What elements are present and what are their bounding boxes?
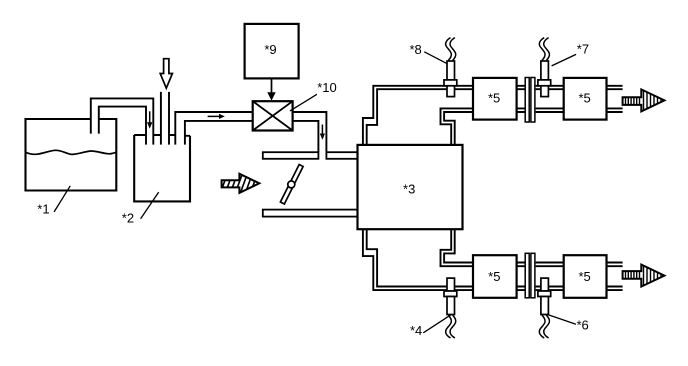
muffler *5 #2 — [564, 78, 607, 120]
sensor *6 tip — [541, 278, 549, 291]
wire squiggle *4 — [446, 315, 452, 338]
sensor *8 body — [447, 61, 455, 80]
sensor *6 body — [541, 297, 549, 315]
exhaust pipe *3 bottom-left outer wall — [363, 229, 473, 290]
svg-text:*2: *2 — [122, 211, 134, 226]
intake duct upper wall left segment — [263, 152, 319, 159]
intake duct upper wall right segment — [326, 152, 357, 159]
engine box *3 — [358, 145, 463, 229]
intake duct lower wall — [263, 210, 358, 217]
wire squiggle *7 — [539, 38, 545, 61]
svg-text:*3: *3 — [403, 181, 415, 196]
hollow arrow (air in) — [160, 59, 172, 88]
sensor *7 tip — [541, 86, 549, 97]
exhaust striped arrow bottom — [623, 265, 665, 287]
svg-text:*5: *5 — [488, 91, 500, 106]
fresh air inlet pipe — [161, 92, 169, 145]
pipe tank *1 to *2 inner wall — [99, 107, 146, 145]
sensor *8 flange — [444, 80, 457, 86]
control arrow *9 to *10 — [271, 78, 273, 93]
leader line *2 — [141, 192, 159, 219]
leader line *10 — [290, 94, 317, 111]
liquid level wavy line — [26, 150, 116, 154]
container *2 top edge segments — [134, 134, 190, 137]
leader line *7 — [552, 54, 576, 66]
exhaust pipe *3 bottom-right outer wall — [441, 229, 474, 266]
leader line *8 — [424, 52, 447, 64]
leader line *1 — [54, 186, 70, 212]
exhaust flange bars top — [525, 78, 529, 123]
pipe valve *10 to intake duct top wall — [293, 112, 327, 152]
exhaust pipe *3 top-left outer wall — [363, 86, 473, 145]
leader line *4 — [423, 315, 451, 333]
tail pipes bottom — [607, 263, 623, 291]
svg-text:*9: *9 — [264, 42, 276, 57]
muffler *5 #3 — [473, 255, 517, 298]
leader line *6 — [547, 314, 576, 324]
pipe *2 to valve *10 top wall — [175, 112, 252, 145]
svg-text:*7: *7 — [577, 41, 589, 56]
sensor *4 body — [447, 297, 455, 315]
sensor *7 flange — [538, 80, 551, 86]
pipe valve *10 to intake duct bottom wall — [293, 121, 319, 152]
exhaust pipe *3 top-left inner wall — [367, 89, 473, 145]
tank *1 — [26, 119, 117, 191]
wire squiggle *8 — [446, 38, 452, 61]
exhaust pipe *3 bottom-right inner wall — [444, 229, 473, 262]
sensor *6 flange — [538, 291, 551, 297]
pipe tank *1 to *2 outer wall — [91, 98, 154, 144]
sensor *4 flange — [444, 291, 457, 297]
muffler *5 #1 — [473, 78, 517, 120]
svg-text:*8: *8 — [410, 42, 422, 57]
svg-text:*5: *5 — [578, 91, 590, 106]
exhaust pipe *3 bottom-left inner wall — [367, 229, 473, 286]
ECM box *9 — [245, 24, 299, 79]
container *2 body — [134, 135, 190, 201]
exhaust striped arrow top — [623, 89, 665, 111]
flow arrow right — [208, 115, 220, 117]
svg-text:*6: *6 — [577, 318, 589, 333]
muffler *5 #4 — [564, 255, 607, 298]
svg-text:*1: *1 — [37, 202, 49, 217]
flow arrow down — [321, 125, 323, 135]
svg-text:*5: *5 — [488, 269, 500, 284]
pipe *2 to valve *10 bottom wall — [185, 121, 253, 145]
sensor *8 tip — [447, 86, 455, 97]
air inlet striped arrow — [222, 174, 260, 193]
sensor *7 body — [541, 61, 549, 80]
exhaust pipe *3 top-right outer wall — [441, 108, 474, 144]
throttle valve shaft circle — [288, 181, 295, 188]
svg-text:*10: *10 — [317, 80, 337, 95]
pipes between muffler #1 and flange — [516, 86, 564, 112]
tail pipes top — [607, 86, 623, 112]
svg-text:*4: *4 — [410, 323, 422, 338]
wire squiggle *6 — [539, 315, 545, 338]
sensor *4 tip — [447, 278, 455, 291]
VSV valve *10 — [253, 101, 293, 130]
flow arrow down into *2 — [149, 111, 151, 123]
svg-text:*5: *5 — [578, 269, 590, 284]
exhaust flange bars bottom — [525, 253, 529, 297]
exhaust pipe *3 top-right inner wall — [444, 112, 473, 145]
pipes between muffler #3 and flange — [516, 263, 564, 291]
throttle valve plate — [280, 165, 303, 204]
